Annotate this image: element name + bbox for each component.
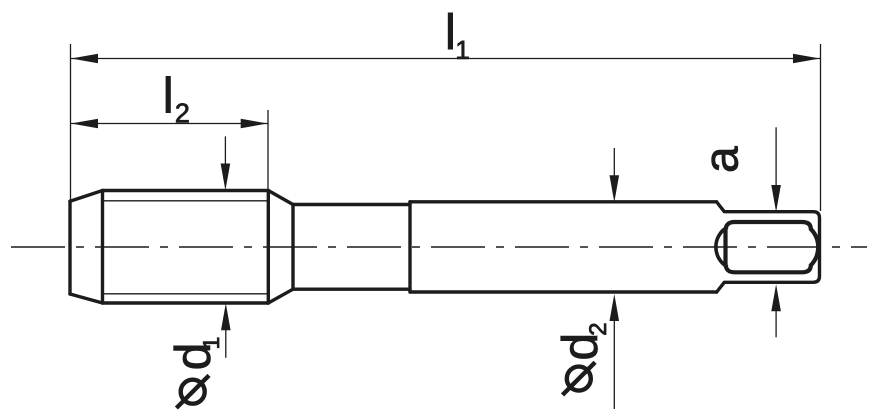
label d2: [561, 336, 598, 359]
label a: [712, 146, 738, 171]
diameter symbol d2: [563, 362, 596, 395]
extension line l1 right: [820, 44, 822, 211]
extension line l1 left: [70, 44, 72, 200]
leader d1 bottom: [225, 315, 227, 358]
label d1 subscript: [203, 338, 219, 348]
arrow a up: [771, 284, 781, 311]
leader d2 bottom: [613, 310, 615, 409]
centerline axis: [11, 246, 867, 248]
shank start face: [408, 202, 411, 292]
thread section outline: [70, 191, 820, 304]
chamfer edge line: [101, 191, 104, 304]
neck bottom line: [293, 288, 410, 291]
arrow d1 up: [221, 303, 231, 330]
leader d2 top: [613, 148, 615, 185]
extension line l2 right: [267, 110, 269, 190]
diameter symbol d1: [176, 375, 209, 408]
arrow l1 left: [71, 54, 98, 64]
chamfer top-left: [70, 191, 103, 202]
thread major top line: [103, 189, 269, 192]
leader d1 top: [224, 136, 226, 175]
shank top line: [410, 200, 717, 203]
arrow d2 down: [610, 175, 620, 202]
neck start face: [291, 205, 294, 290]
label d1: [174, 346, 211, 369]
label l2: [166, 76, 170, 112]
round-to-square transition arc left: [716, 227, 728, 267]
shank bottom line: [410, 290, 717, 293]
thread major bottom line: [103, 301, 269, 304]
arrow d2 up: [610, 294, 620, 321]
label d2 subscript: [589, 324, 606, 335]
left end face: [68, 201, 71, 294]
dimension line l2: [71, 123, 268, 125]
arrow d1 down: [221, 164, 231, 191]
arrow l1 right: [793, 54, 820, 64]
arrow l2 left: [71, 119, 98, 129]
thread root bottom line: [103, 293, 269, 295]
arrow a down: [771, 185, 781, 212]
label l2 subscript: [176, 103, 188, 122]
square drive: [726, 222, 819, 272]
chamfer bottom-right: [268, 289, 293, 303]
dimension line l1: [71, 58, 820, 60]
leader a bottom: [775, 300, 777, 337]
thread end face: [267, 191, 270, 304]
arrow l2 right: [241, 119, 268, 129]
thread root top line: [103, 200, 269, 202]
end cap outline: [717, 202, 820, 292]
chamfer top-right: [268, 191, 293, 205]
label l1: [448, 13, 452, 49]
label l1 subscript: [457, 41, 468, 59]
neck top line: [293, 203, 410, 206]
leader a top: [775, 127, 777, 195]
chamfer bottom-left: [70, 294, 103, 303]
